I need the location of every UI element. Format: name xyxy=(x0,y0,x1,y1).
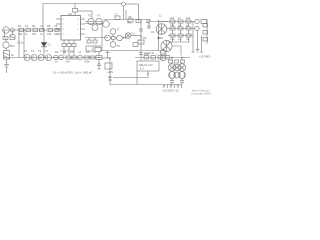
svg-text:+12 GND +12: +12 GND +12 xyxy=(162,89,179,93)
svg-text:C4: C4 xyxy=(40,24,44,28)
svg-text:4u7: 4u7 xyxy=(66,60,71,64)
svg-text:D1: D1 xyxy=(48,43,52,47)
svg-text:T8: T8 xyxy=(123,36,127,40)
svg-text:2k2: 2k2 xyxy=(170,16,175,20)
svg-text:L1: L1 xyxy=(159,14,162,18)
svg-text:T7: T7 xyxy=(117,28,121,32)
svg-text:K1: K1 xyxy=(132,32,136,36)
svg-text:C8: C8 xyxy=(128,15,132,19)
svg-text:T1: T1 xyxy=(24,49,28,53)
svg-text:3: 3 xyxy=(63,29,64,31)
svg-text:1k: 1k xyxy=(11,53,14,57)
svg-text:R6: R6 xyxy=(86,50,90,54)
svg-text:R9: R9 xyxy=(143,36,147,40)
svg-text:C7: C7 xyxy=(115,13,119,17)
svg-text:L2: L2 xyxy=(78,50,81,54)
svg-text:6: 6 xyxy=(78,29,79,31)
svg-text:K 2: K 2 xyxy=(140,67,144,71)
svg-text:1: 1 xyxy=(63,19,64,21)
svg-text:2n2: 2n2 xyxy=(54,32,59,36)
svg-text:1k: 1k xyxy=(55,60,58,64)
svg-text:C2: C2 xyxy=(25,24,29,28)
svg-text:C3: C3 xyxy=(151,30,155,34)
svg-text:47k: 47k xyxy=(170,24,175,28)
svg-text:TR1: TR1 xyxy=(127,21,132,25)
svg-text:C3 1u: C3 1u xyxy=(17,41,24,45)
svg-text:8: 8 xyxy=(78,19,79,21)
svg-text:2: 2 xyxy=(63,24,64,26)
svg-text:10k: 10k xyxy=(186,16,191,20)
svg-text:1n: 1n xyxy=(178,16,181,20)
svg-text:4u7 100n 10u: 4u7 100n 10u xyxy=(60,51,74,53)
svg-text:C6: C6 xyxy=(54,24,58,28)
svg-text:C7: C7 xyxy=(93,50,97,54)
svg-text:T3: T3 xyxy=(38,49,42,53)
svg-text:IC1: IC1 xyxy=(68,12,73,16)
svg-text:47u: 47u xyxy=(178,39,182,41)
svg-text:D2: D2 xyxy=(55,50,59,54)
svg-text:R5: R5 xyxy=(47,24,51,28)
svg-text:5: 5 xyxy=(78,34,79,36)
svg-text:C14: C14 xyxy=(160,52,165,56)
svg-text:22k: 22k xyxy=(47,32,52,36)
svg-text:100n: 100n xyxy=(170,39,176,41)
svg-text:+12 GND +5: +12 GND +5 xyxy=(199,56,211,59)
svg-text:T4: T4 xyxy=(45,49,49,53)
svg-text:1n: 1n xyxy=(25,32,28,36)
svg-text:T6: T6 xyxy=(97,14,101,18)
svg-text:+12V: +12V xyxy=(107,70,113,74)
svg-text:R3: R3 xyxy=(32,24,36,28)
svg-text:4: 4 xyxy=(63,34,64,36)
svg-text:7: 7 xyxy=(78,24,79,26)
svg-text:220: 220 xyxy=(186,39,190,41)
svg-text:10k: 10k xyxy=(18,32,23,36)
svg-text:T2: T2 xyxy=(31,49,35,53)
svg-text:1u: 1u xyxy=(40,32,43,36)
svg-text:0.1 = 100 nF/63V ; 1n0 = 1000: 0.1 = 100 nF/63V ; 1n0 = 1000 pF xyxy=(53,71,92,75)
svg-text:of geradas (MHX): of geradas (MHX) xyxy=(191,92,211,96)
svg-text:100n: 100n xyxy=(84,60,90,64)
svg-text:4k7: 4k7 xyxy=(32,32,37,36)
svg-text:RELAY 12V: RELAY 12V xyxy=(139,63,153,67)
svg-text:C10 C11: C10 C11 xyxy=(144,51,155,55)
svg-text:78L05: 78L05 xyxy=(94,44,102,48)
svg-text:R1: R1 xyxy=(18,24,22,28)
svg-text:T5: T5 xyxy=(88,14,92,18)
svg-text:T9: T9 xyxy=(117,44,121,48)
svg-text:MIC: MIC xyxy=(10,44,15,48)
